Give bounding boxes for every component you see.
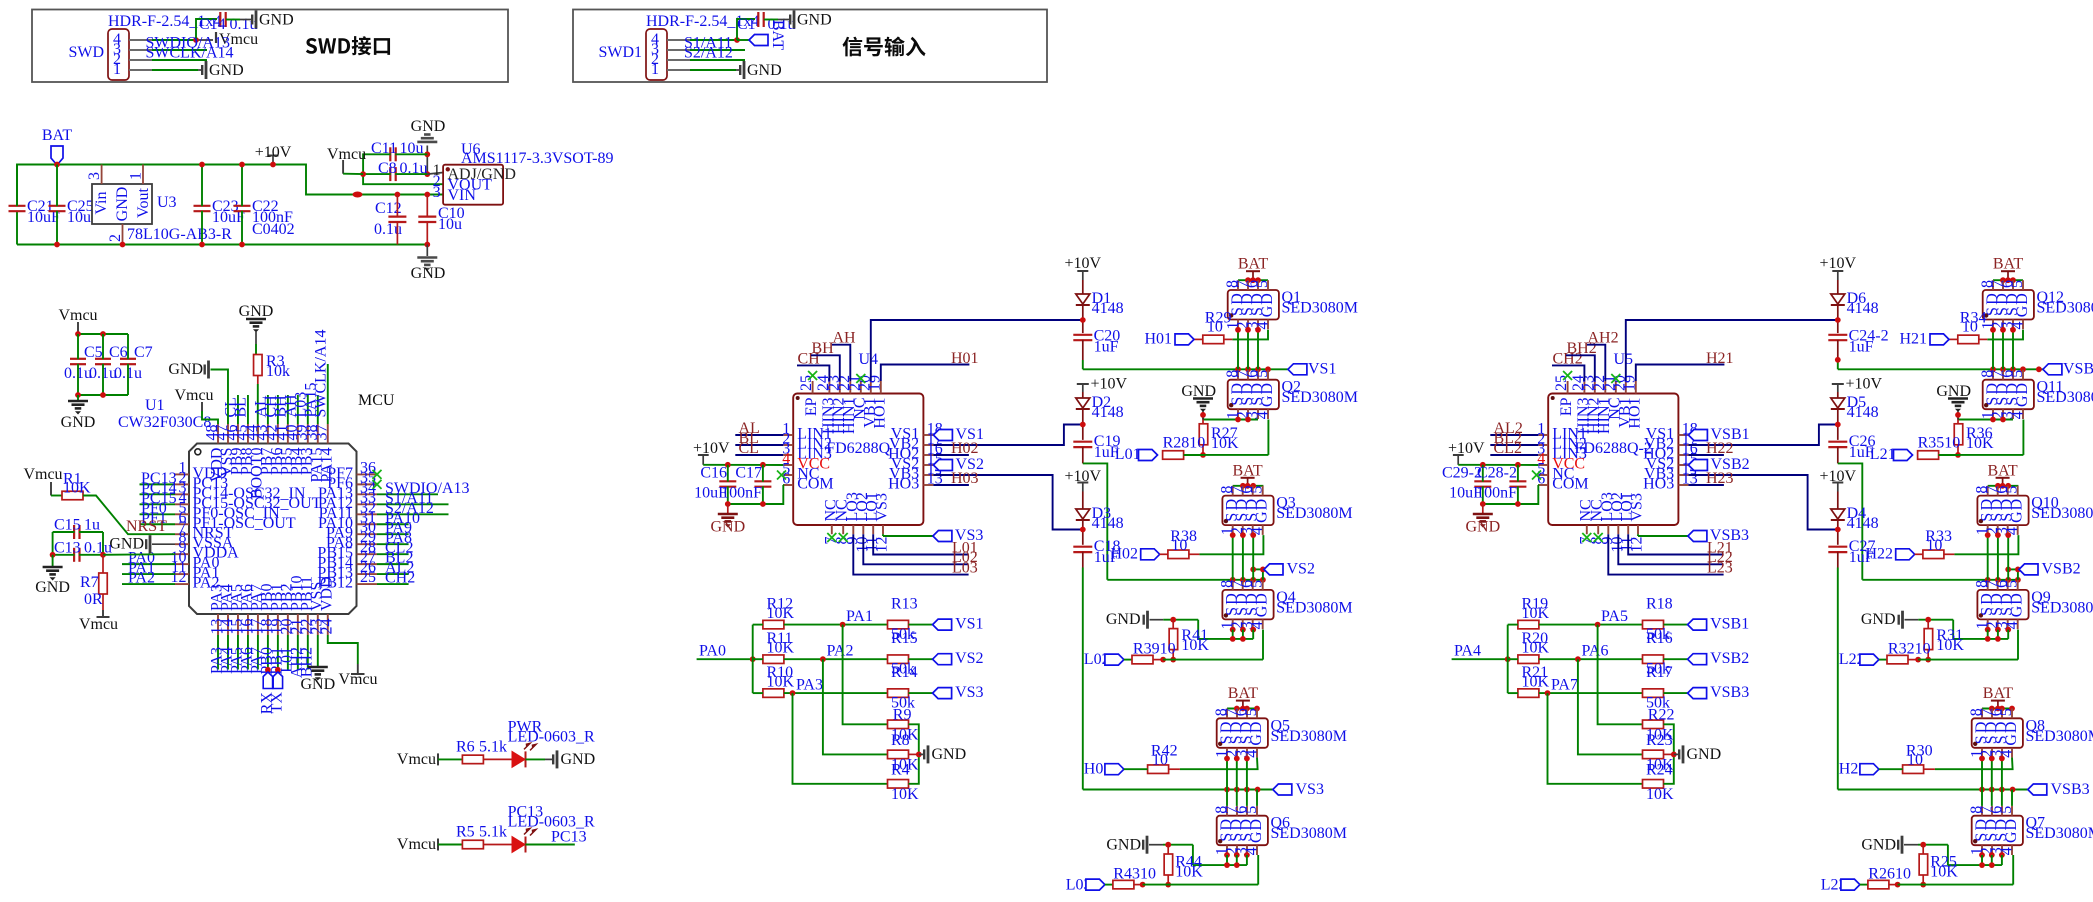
wire LO3 L03 [853,534,968,574]
U5 pin 3 stub [1537,441,1587,463]
junction q2s1 [1235,417,1241,423]
svg-text:H01: H01 [951,350,979,367]
wire Q5 drain bus [1227,708,1257,710]
svg-text:37: 37 [313,425,330,441]
net label PA8 (MCU right) [385,530,412,547]
junction source3 [1240,532,1246,538]
transistor Q7 [1968,806,2093,856]
svg-text:BAT: BAT [1232,462,1262,479]
junction bus3 [1989,787,1995,793]
junction q2s1 [1990,417,1996,423]
no-connect pin21 [856,374,865,383]
net label S1/A11 (MCU right) [385,490,433,507]
resistor R18 [1643,596,1673,644]
junction bus2 p4 [2015,577,2021,583]
net label PA3 (MCU bottom) [209,647,226,674]
svg-text:GND: GND [61,414,96,431]
net label PC13 (MCU) [141,470,177,487]
net flag TX [268,667,285,713]
junction drain [2010,277,2016,283]
resistor R12 [753,596,795,629]
wire Q6 sources [1193,864,1247,866]
wire LO2 L22 [1618,534,1723,564]
no-connect EP [808,371,817,380]
resistor R9 [888,706,920,743]
svg-text:BH: BH [812,340,835,357]
wire Vmcu to R5 [438,844,462,846]
svg-text:5: 5 [1254,280,1271,288]
junction bus3 [1979,787,1985,793]
connector SWD1 body [598,13,759,80]
net label PC14 (MCU) [141,480,177,497]
wire row2 mid [1539,658,1643,660]
svg-text:SED3080M: SED3080M [2026,728,2093,745]
ground GND (C29-2) [1465,504,1500,536]
junction drain3 [2000,483,2006,489]
wire PA4 input [1452,658,1508,660]
svg-text:GND: GND [710,519,745,536]
U4 pin 19 stub [866,375,888,429]
wire Q8 source [2001,758,2003,790]
svg-text:AH: AH [833,330,857,347]
svg-text:4148: 4148 [1847,515,1879,532]
wire Q1 gate [1232,330,1268,340]
svg-text:VSB3: VSB3 [2051,781,2090,798]
resistor R17 [1643,664,1673,712]
wire top rail [17,165,443,206]
svg-text:GND: GND [411,118,446,135]
svg-text:100nF: 100nF [721,485,762,502]
svg-text:0R: 0R [84,591,103,608]
svg-text:10k: 10k [266,363,290,380]
U4 pin 23 stub [825,375,847,434]
power flag +10V (D5) [1832,376,1883,393]
svg-text:U3: U3 [157,194,177,211]
wire VDDA [103,553,175,556]
junction bus1 p2 [2010,366,2016,372]
junction q4s2 [1240,636,1246,642]
wire Q1 source [1237,330,1239,370]
capacitor C24-2 [1828,328,1888,356]
wire row2 mid [784,658,888,660]
net label S2/A12 [684,45,733,62]
svg-text:10K: 10K [1175,864,1203,881]
svg-text:Vmcu: Vmcu [58,307,97,324]
svg-text:H02: H02 [951,440,979,457]
ground GND (R3) [239,303,274,333]
junction bus1 p3 [1265,366,1271,372]
wire C21 bottom [16,212,18,245]
resistor R6 [456,738,507,763]
wire Q8 drain bus [1982,708,2012,710]
MCU pin 34 stub [318,479,377,502]
svg-text:SED3080M: SED3080M [1271,728,1347,745]
wire HO3 H03 [933,484,969,486]
power flag +10V (D1) [1065,255,1102,280]
net flag BAT (power) [42,127,72,165]
junction drain5 [1995,706,2001,712]
wire HO1 H21 [1636,365,1725,382]
junction PA0 [750,656,756,662]
wire Q7 gate [1898,855,2014,885]
svg-text:4148: 4148 [1847,300,1879,317]
MCU pin 36 stub [327,459,377,482]
svg-text:78L10G-AB3-R: 78L10G-AB3-R [127,226,232,243]
junction bus2 [2005,577,2011,583]
U4 pin 15 stub [891,451,943,473]
svg-text:GND: GND [1687,746,1722,763]
wire PA1 vertical [843,625,888,725]
net label AL [739,420,760,437]
junction VB3 [1835,527,1841,533]
svg-text:G: G [2014,305,2031,317]
wire Q11 sources [1958,419,2013,421]
junction q4 src c [2005,627,2011,633]
net label PA6 (MCU bottom) [238,647,255,674]
svg-text:R3510: R3510 [1918,434,1961,451]
wire Q8 gate [1935,758,2013,770]
junction R39 out [1160,657,1166,663]
capacitor C17 [721,465,771,505]
transistor Q9 [1974,580,2093,630]
net label L02 (U) [952,549,978,566]
U4 pin 8 stub [834,499,851,544]
svg-text:PA4: PA4 [1454,643,1481,660]
svg-text:HO3: HO3 [1643,476,1674,493]
junction C12 top [395,192,401,198]
junction PA2 [820,656,826,662]
wire Q5 source [1246,758,1248,790]
junction VB2 [1080,422,1086,428]
title SWD [306,36,390,55]
wire row3 mid [784,692,888,694]
net flag BAT (Q12) [1993,256,2023,281]
MCU pin 13 stub [209,584,226,635]
wire MCU right pin 27 [377,563,409,565]
U4 pin 25 stub [798,375,820,416]
svg-text:TX: TX [268,692,285,714]
svg-text:2: 2 [107,234,124,242]
wire Q2 gate [1203,420,1268,455]
net flag VS1 [933,616,984,633]
resistor R4 [888,761,920,803]
wire R15 to flag [909,658,933,660]
svg-text:GND: GND [300,676,335,693]
svg-text:R4: R4 [891,761,910,778]
ground GND (SWD1 pin1) [740,61,781,79]
junction C13 right [100,552,106,558]
net flag BAT (Q5) [1228,685,1258,708]
svg-text:H21: H21 [1706,350,1734,367]
svg-text:BAT: BAT [42,127,72,144]
MCU pin 39 stub [293,424,315,475]
capacitor C22 [234,165,295,245]
wire Q10 drain bus [1988,485,2019,487]
resistor R13 [888,596,918,644]
wire MCU left pin 4 [140,503,176,505]
resistor R19 [1508,596,1550,629]
U4 pin 7 stub [822,499,839,544]
no-connect pin5 [1532,471,1541,480]
wire MCU bottom pin 22 [307,635,309,670]
svg-text:PA6: PA6 [1582,643,1609,660]
diode D4 [1831,492,1879,533]
svg-text:SED3080M: SED3080M [1282,300,1358,317]
MCU pin 45 stub [233,424,255,475]
junction q4 src a [1985,627,1991,633]
wire PA0 input [697,658,753,660]
junction PA4 [1505,656,1511,662]
net label H21 (U) [1706,350,1734,367]
svg-text:+10V: +10V [1091,376,1128,393]
svg-text:+10V: +10V [255,144,292,161]
svg-text:R9: R9 [893,706,912,723]
svg-text:SED3080M: SED3080M [1271,825,1347,842]
net flag VS1 (bus) [1288,361,1337,378]
svg-text:GND: GND [561,751,596,768]
wire D4 to C27 [1837,520,1839,545]
MCU pin 16 stub [238,584,255,635]
MCU pin 46 stub [223,424,245,475]
ground GND (C5-C7) [61,395,96,431]
svg-text:VSB1: VSB1 [1710,616,1749,633]
transistor Q5 [1213,708,1347,758]
Vmcu flag (pin48) [174,387,213,411]
svg-text:G: G [1254,605,1271,617]
resistor R20 [1508,630,1550,663]
no-connect PF6 [373,480,382,489]
wire MCU pin37 SWCLK [327,364,329,424]
svg-text:VSB2: VSB2 [1710,650,1749,667]
U5 pin 7 stub [1577,499,1594,544]
transistor Q3 [1219,486,1353,535]
wire MCU left pin 12 [122,583,175,585]
svg-text:GND: GND [239,303,274,320]
power flag +10V (D4) [1820,468,1857,492]
wire VB2 [933,425,1082,446]
resistor R28 [1163,434,1206,459]
net flag VSB1 (bus) [2043,361,2093,378]
svg-text:CW32F030C8: CW32F030C8 [118,414,211,431]
wire SWD1 pin3 [690,49,745,51]
junction drain5 [1234,706,1240,712]
svg-text:5: 5 [1998,708,2015,716]
svg-text:D: D [2003,722,2020,734]
connector SWD body [68,13,221,80]
junction R41 top [1925,617,1931,623]
MCU pin 17 stub [248,584,265,635]
junction gate row1 [1200,452,1206,458]
svg-text:5: 5 [1243,806,1260,814]
net flag L01 [1115,446,1158,463]
svg-text:D: D [2014,293,2031,305]
net label H22 (U) [1706,440,1734,457]
MCU pin 44 stub [243,424,265,499]
MCU pin 8 stub [175,529,234,552]
junction q4 src a [1230,627,1236,633]
net label CH2 [1553,350,1583,367]
svg-text:GND: GND [168,361,203,378]
wire AH2 [1587,345,1605,381]
wire LO1 L21 [1628,534,1723,554]
net label BL2 (MCU right) [385,550,413,567]
resistor R8 [888,732,920,774]
junction source3 [1985,532,1991,538]
svg-text:G: G [1248,734,1265,746]
U4 pin 10 stub [854,492,871,552]
connector SWD pin 1 stub [129,69,152,71]
wire Q12 drain bus [1993,279,2023,281]
wire HO3 H23 [1688,484,1724,486]
wire MCU top pin 41 [287,395,289,424]
svg-text:10K: 10K [1966,435,1994,452]
net flag VS2 (pin15) [933,456,984,473]
svg-text:10K: 10K [767,640,795,657]
junction q6s1 [1979,862,1985,868]
svg-text:10: 10 [1152,752,1168,769]
junction q6 src [1244,852,1250,858]
power flag +10V (VCC) [1448,440,1485,465]
net label BH2 (MCU bottom) [298,647,315,677]
net label AH2 (MCU bottom) [288,647,305,678]
MCU pin 24 stub [318,576,335,635]
svg-text:5: 5 [2009,370,2026,378]
junction bus3 [1244,787,1250,793]
power flag +10V (VCC) [693,440,730,465]
svg-text:24: 24 [318,619,335,635]
svg-text:VS3: VS3 [1296,781,1324,798]
svg-text:G: G [1254,511,1271,523]
net label PA5 (MCU bottom) [228,647,245,674]
capacitor C21 [9,165,61,227]
net flag VSB1 (pin18) [1688,426,1749,443]
svg-text:GND: GND [1106,611,1141,628]
svg-text:GND: GND [114,187,131,222]
svg-text:D: D [1248,819,1265,831]
wire MCU top pin 38 [317,395,319,424]
junction PA5 [1595,622,1601,628]
wire VSS to GND [317,635,319,666]
junction bus3 [1234,787,1240,793]
svg-text:VS3: VS3 [955,684,983,701]
svg-text:CL2: CL2 [1494,440,1522,457]
svg-text:4148: 4148 [1092,515,1124,532]
ground flag (VSSA) [109,535,175,553]
junction C10 top [424,192,430,198]
junction source5 [1999,756,2005,762]
svg-text:VS2: VS2 [955,650,983,667]
svg-text:10K: 10K [1181,637,1209,654]
svg-text:PA2: PA2 [128,570,155,587]
ground GND (Q11) [1936,383,1971,420]
wire Q5 gate [1180,758,1258,770]
MCU pin 43 stub [253,424,275,475]
junction drain3 [1245,483,1251,489]
junction q6 src [1224,852,1230,858]
svg-text:D: D [1248,722,1265,734]
junction source3 [1250,532,1256,538]
svg-text:SED3080M: SED3080M [2031,599,2093,616]
U5 pin 17 stub [1644,431,1698,453]
junction q6s2 [1234,862,1240,868]
wire Vmcu to R1 [51,495,62,497]
svg-text:5.1k: 5.1k [479,738,507,755]
MCU pin 7 stub [175,519,234,542]
net label L23 (U) [1707,560,1733,577]
wire VSB2 bus [1862,579,2018,581]
ground flag (pin47 VSS) [168,361,208,379]
U4 pin 18 stub [891,421,943,443]
MCU pin 2 stub [175,469,228,492]
U5 pin 12 stub [1629,493,1646,552]
junction source [1245,327,1251,333]
wire HO2 H22 [1688,454,1724,456]
wire to C1 [737,19,755,40]
U4 pin 13 stub [888,471,943,493]
svg-text:1: 1 [128,172,145,180]
wire Q1 source [1247,330,1249,370]
ground flag (Q9) [1861,611,1953,639]
net label L21 (U) [1707,539,1733,556]
power flag +10V (D3) [1065,468,1102,492]
svg-text:10K: 10K [891,786,919,803]
net flag VSB2 (bus) [2005,561,2080,580]
svg-text:SED3080M: SED3080M [1276,599,1352,616]
wire BL2 [1490,444,1538,446]
svg-text:MCU: MCU [358,392,395,409]
net label PA7 (MCU bottom) [248,647,265,674]
net flag VSB2 [1688,650,1750,667]
svg-text:CH2: CH2 [385,570,415,587]
svg-text:Vmcu: Vmcu [327,146,366,163]
svg-text:R5: R5 [456,824,475,841]
net label CL [222,397,239,417]
capacitor C14 [199,12,258,33]
capacitor C8 [363,160,427,181]
svg-text:R6: R6 [456,738,475,755]
wire R18 to flag [1664,624,1688,626]
junction drain [2005,277,2011,283]
wire D3 to C18 [1082,520,1084,545]
resistor R35 [1918,434,1961,459]
junction bus2 p4 [1260,577,1266,583]
svg-text:BAT: BAT [1983,685,2013,702]
block frame signal-in [573,10,1047,83]
resistor R36 [1954,420,1994,455]
wire MCU top pin 40 [297,395,299,424]
junction q4 src b [1995,627,2001,633]
wire MCU bottom pin 21 [297,635,299,670]
wire MCU top pin 39 [307,395,309,424]
svg-text:10: 10 [1207,319,1223,336]
ground GND (C14) [252,11,293,29]
net flag VS2 [933,650,984,667]
wire BAT stub [56,164,58,167]
junction C16 top [725,462,731,468]
svg-text:D: D [2014,383,2031,395]
wire MCU bottom pin 14 [227,635,229,670]
MCU pin 32 stub [319,499,377,522]
junction bus1 p3 [2020,366,2026,372]
resistor R38 [1168,528,1200,559]
ground GND (U6 top) [411,118,446,142]
wire Q3 drain bus [1233,485,1264,487]
junction source [1235,327,1241,333]
wire D6 to C24-2 [1837,305,1839,333]
svg-text:SWCLK/A14: SWCLK/A14 [312,330,329,418]
svg-text:10K: 10K [1522,640,1550,657]
MCU pin 20 stub [278,583,295,635]
